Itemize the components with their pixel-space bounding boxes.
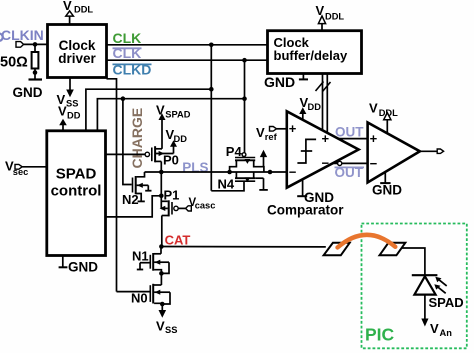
svg-text:PIC: PIC (365, 325, 395, 345)
svg-text:V: V (156, 103, 165, 118)
wire CLK branch to SPAD control (210, 45, 212, 191)
svg-text:N4: N4 (218, 177, 235, 192)
svg-text:GND: GND (68, 260, 98, 275)
svg-text:GND: GND (372, 183, 402, 198)
power VDD (SPAD control) (58, 104, 81, 131)
svg-text:N2: N2 (122, 192, 139, 207)
bond pad 1 (324, 243, 350, 256)
svg-text:DD: DD (174, 134, 188, 144)
clock driver U1 (48, 25, 107, 78)
transistor N4 (transmission gate bottom) (211, 172, 255, 192)
ground (50ohm) (13, 73, 43, 101)
wire CHARGE (P0 gate) (107, 153, 146, 155)
svg-text:ref: ref (265, 132, 278, 142)
svg-text:An: An (440, 328, 453, 338)
wire PLS (145, 171, 230, 173)
wire CLK (107, 44, 268, 46)
power arrow (P4 body) (260, 150, 267, 167)
svg-text:+: + (289, 121, 297, 136)
svg-text:P1: P1 (164, 188, 180, 203)
svg-text:V: V (256, 125, 265, 140)
transistor P1 (160, 188, 192, 247)
transistor P0 (145, 146, 179, 172)
svg-text:P0: P0 (163, 153, 179, 168)
wire to N2 gate (123, 99, 132, 185)
node OUTB (335, 165, 365, 180)
svg-text:CAT: CAT (165, 233, 191, 248)
wire CLKD (107, 79, 117, 292)
svg-text:CHARGE: CHARGE (129, 108, 145, 169)
PIC dashed box (362, 224, 467, 349)
diode SPAD (412, 275, 464, 310)
power VDDL (clock driver) (63, 0, 93, 25)
svg-text:CLK: CLK (113, 30, 142, 46)
svg-text:−: − (322, 155, 330, 170)
svg-text:+: + (370, 131, 378, 146)
svg-text:V: V (316, 3, 325, 18)
wire pad2 to SPAD diode (402, 248, 425, 275)
svg-text:SPAD: SPAD (165, 110, 190, 120)
svg-text:driver: driver (58, 51, 96, 66)
SPAD control U3 (47, 131, 106, 256)
svg-text:SS: SS (165, 325, 177, 335)
ground (N4 body) (255, 178, 268, 190)
power VDDL (buffer) (316, 3, 345, 31)
power VDD (comparator) (299, 95, 321, 120)
wire transmission gate nodes (227, 170, 286, 175)
power VDD (P0) (166, 127, 188, 147)
svg-text:OUT: OUT (335, 124, 364, 139)
svg-text:OUT: OUT (335, 165, 364, 180)
svg-text:GND: GND (13, 85, 43, 100)
ground (comparator) (297, 180, 334, 206)
wire OUT (338, 138, 368, 140)
svg-text:−: − (289, 165, 297, 180)
svg-text:DDL: DDL (325, 12, 344, 22)
svg-text:N1: N1 (132, 249, 149, 264)
resistor 50ohm (0, 44, 38, 74)
power VSS (clock driver) (57, 78, 79, 109)
wire CLKB branch to SPAD control (244, 60, 246, 153)
svg-text:GND: GND (264, 74, 295, 90)
node Vsec (5, 159, 47, 177)
svg-text:V: V (369, 101, 378, 116)
clock buffer/delay U2 (268, 31, 362, 74)
svg-text:buffer/delay: buffer/delay (274, 48, 348, 63)
wire CAT (161, 246, 325, 248)
node (cropped glyph at left edge) (0, 34, 3, 41)
power VSS (N0) (156, 304, 177, 335)
wire SPAD control to PLS (106, 196, 162, 217)
node output terminal (420, 149, 444, 153)
svg-text:casc: casc (195, 201, 216, 211)
svg-text:V: V (430, 321, 439, 336)
svg-text:SS: SS (66, 99, 78, 109)
ground (buffer) (264, 74, 308, 90)
svg-text:SPAD: SPAD (56, 166, 97, 183)
svg-text:SPAD: SPAD (429, 295, 464, 310)
node Vcasc (189, 197, 216, 211)
svg-text:V: V (63, 0, 72, 13)
wire bond (orange) (338, 235, 396, 248)
svg-text:control: control (51, 183, 102, 200)
wire CLKB (107, 59, 268, 61)
transistor N1 (132, 247, 169, 276)
svg-text:50Ω: 50Ω (0, 55, 28, 71)
svg-text:V: V (58, 104, 67, 119)
svg-text:DDL: DDL (74, 5, 93, 15)
op-amp U4 comparator (287, 111, 359, 187)
node CLKB (113, 45, 142, 61)
ground (buffer 2) (372, 172, 402, 197)
svg-text:DD: DD (308, 102, 322, 112)
transistor P4 (transmission gate top) (226, 144, 264, 172)
svg-text:CLKD: CLKD (113, 62, 152, 78)
svg-text:N0: N0 (131, 290, 148, 305)
bond pad 2 (380, 243, 406, 256)
op-amp U5 output buffer (368, 123, 420, 183)
ground (SPAD control) (59, 256, 99, 275)
wire clock bus to comparator (316, 74, 331, 133)
svg-text:V: V (156, 319, 165, 334)
wire OUTB (334, 162, 368, 164)
power VAn (421, 295, 452, 338)
node CLKIN (1, 27, 48, 47)
svg-text:CLKIN: CLKIN (1, 27, 44, 43)
svg-text:+: + (322, 131, 330, 146)
svg-text:−: − (370, 156, 378, 171)
power VDDL (buffer 2) (369, 101, 398, 134)
svg-text:GND: GND (304, 190, 334, 205)
transistor N0 (117, 273, 171, 306)
node CLKD (113, 62, 152, 78)
svg-text:CLK: CLK (113, 45, 142, 61)
transistor N2 (122, 172, 152, 207)
node Vref (256, 125, 287, 142)
svg-text:DD: DD (67, 111, 81, 121)
power VSPAD (156, 103, 191, 149)
